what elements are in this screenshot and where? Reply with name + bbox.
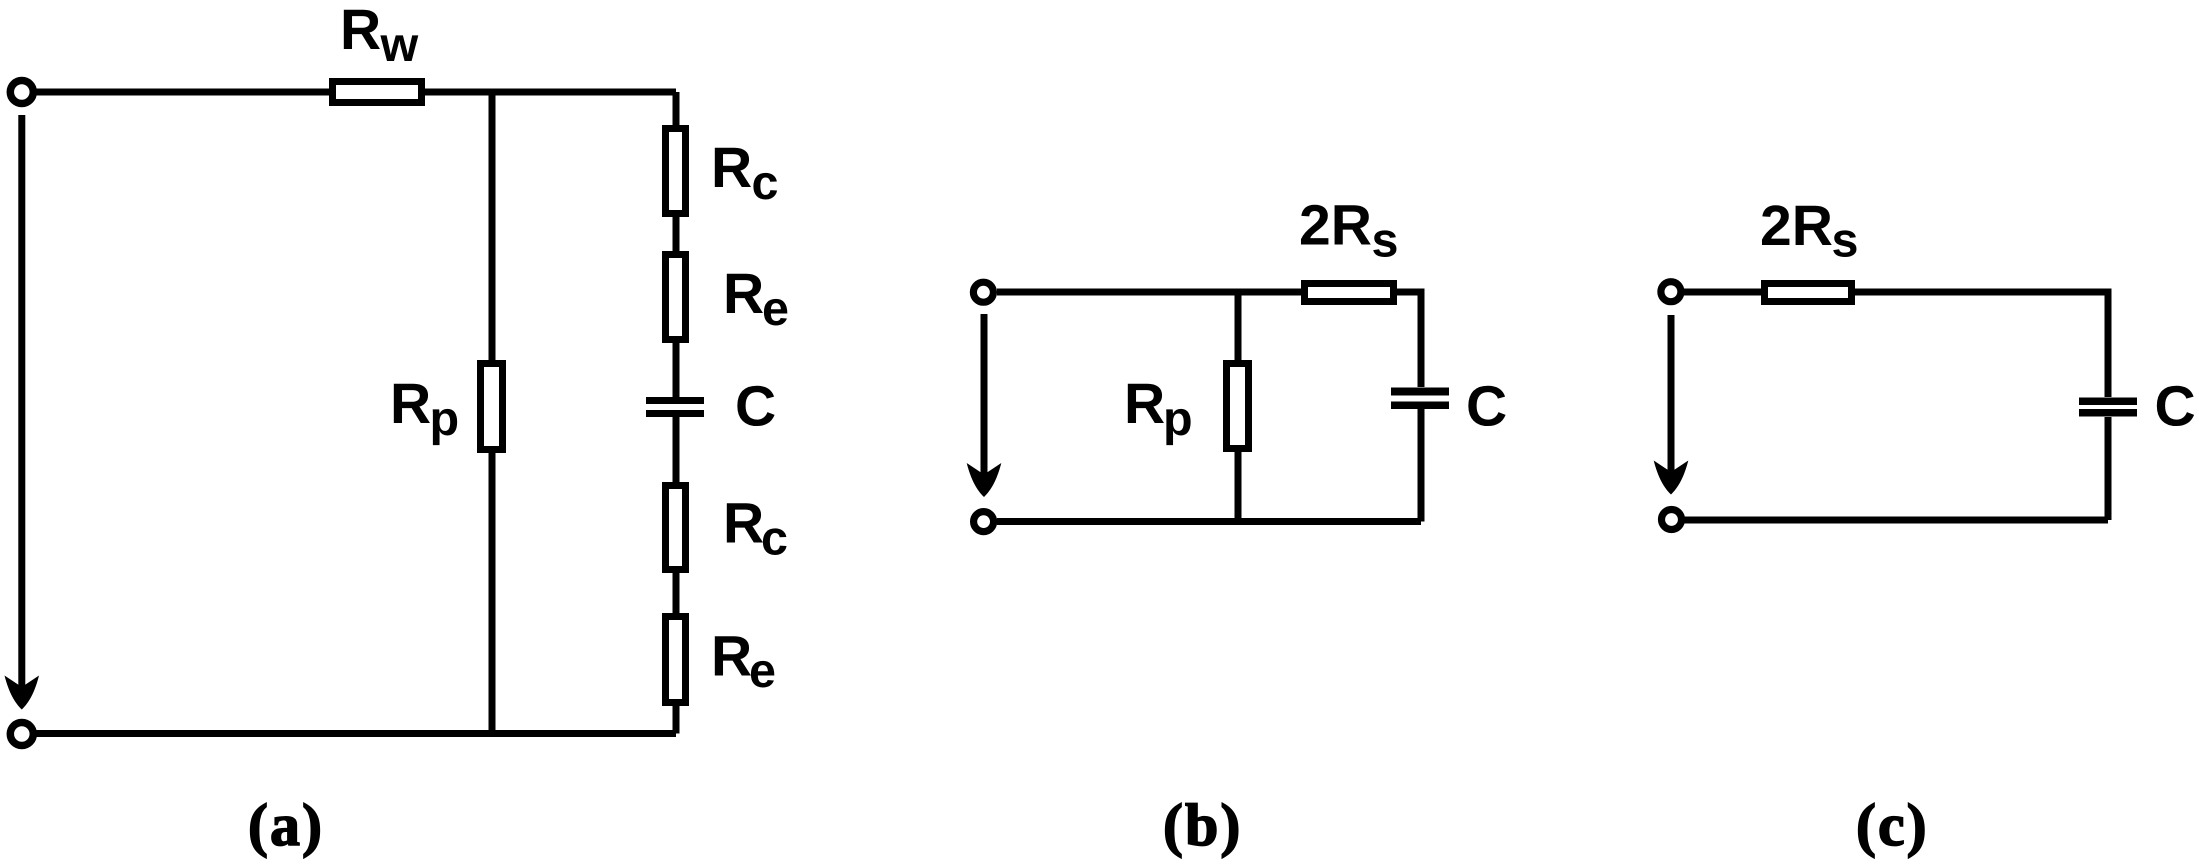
- svg-text:e: e: [749, 644, 776, 698]
- svg-text:C: C: [2155, 375, 2196, 439]
- svg-text:R: R: [340, 0, 381, 62]
- svg-text:(c): (c): [1856, 792, 1929, 858]
- svg-text:R: R: [1124, 372, 1165, 436]
- svg-text:C: C: [1466, 375, 1507, 439]
- svg-text:(a): (a): [248, 792, 324, 858]
- svg-text:C: C: [735, 375, 776, 439]
- svg-text:2R: 2R: [1299, 194, 1372, 258]
- svg-text:R: R: [723, 262, 764, 326]
- svg-text:2R: 2R: [1760, 194, 1833, 258]
- svg-text:R: R: [723, 492, 764, 556]
- svg-text:e: e: [762, 282, 789, 336]
- svg-text:c: c: [752, 156, 779, 210]
- svg-text:R: R: [711, 625, 752, 689]
- svg-text:R: R: [390, 372, 431, 436]
- svg-text:s: s: [1372, 214, 1399, 268]
- svg-text:p: p: [1163, 392, 1193, 446]
- svg-text:s: s: [1832, 214, 1859, 268]
- svg-text:(b): (b): [1163, 792, 1242, 858]
- svg-text:p: p: [430, 392, 460, 446]
- svg-text:w: w: [380, 18, 419, 72]
- svg-text:R: R: [711, 136, 752, 200]
- svg-text:c: c: [761, 512, 788, 566]
